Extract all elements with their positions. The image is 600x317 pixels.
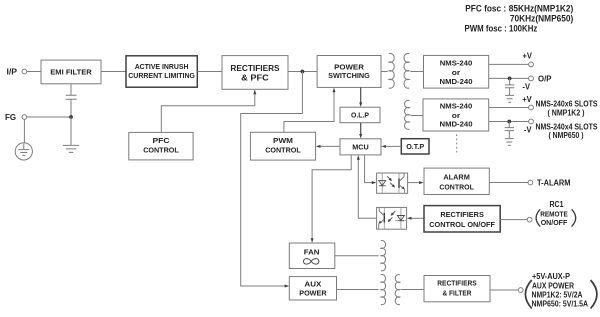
svg-text:-V: -V	[523, 82, 531, 91]
block POWER SWITCHING	[317, 56, 381, 88]
capacitor EMI Y-cap	[66, 84, 77, 117]
block NMS-240/NMD-240 slot 2	[423, 99, 489, 131]
block PWM CONTROL	[250, 132, 315, 160]
svg-text:NMS-240x6 SLOTS: NMS-240x6 SLOTS	[536, 99, 599, 108]
wire FAN to transformer T2	[335, 255, 379, 257]
earth protective ground symbol	[15, 143, 32, 160]
svg-text:NMS-240: NMS-240	[440, 58, 473, 67]
svg-text:70KHz(NMP650): 70KHz(NMP650)	[510, 14, 573, 24]
wire NMS slot2 -V output	[489, 121, 529, 123]
svg-text:AUX: AUX	[304, 279, 321, 288]
terminal +V output 1	[522, 51, 533, 66]
svg-text:NMP1K2: 5V/2A: NMP1K2: 5V/2A	[532, 291, 583, 300]
wire MCU to opto1	[365, 155, 374, 183]
svg-text:RECTIFIERS: RECTIFIERS	[230, 64, 279, 73]
transformer T1 secondary winding 1	[404, 53, 409, 88]
block RECTIFIERS CONTROL ON/OFF	[424, 206, 500, 232]
wire T2 secondary to RECTIFIERS & FILTER	[401, 289, 424, 291]
svg-text:-V: -V	[524, 126, 532, 135]
wire RECTIFIERS CONTROL to opto2	[410, 217, 424, 219]
transformer T2 fan winding	[381, 241, 386, 271]
junction FG node	[69, 115, 73, 119]
svg-text:ALARM: ALARM	[443, 173, 470, 182]
ground output 1	[505, 95, 514, 102]
wire PFC CONTROL to RECTIFIERS & PFC	[161, 91, 255, 133]
arrow into MCU	[359, 134, 362, 139]
svg-text:NMD-240: NMD-240	[440, 120, 473, 129]
block ACTIVE INRUSH CURRENT LIMITING	[126, 56, 197, 87]
svg-text:CONTROL: CONTROL	[265, 146, 301, 155]
block ALARM CONTROL	[424, 168, 489, 194]
ground output 2	[505, 139, 514, 146]
wire O.L.P to MCU	[360, 123, 362, 136]
wire ACTIVE INRUSH to RECTIFIERS & PFC	[197, 71, 222, 73]
svg-text:PFC: PFC	[153, 136, 171, 145]
wire DC bus down to AUX POWER	[241, 72, 303, 287]
wire opto1 to ALARM CONTROL	[408, 182, 421, 184]
wire O.T.P to MCU	[385, 145, 402, 147]
svg-text:+V: +V	[522, 51, 532, 60]
terminal +V output 2	[522, 95, 533, 110]
terminal -V output 2	[524, 119, 533, 135]
svg-text:85KHz(NMP1K2): 85KHz(NMP1K2)	[509, 4, 574, 14]
transformer T2 primary winding	[381, 274, 386, 304]
label NMS-240x6 SLOTS (NMP1K2)	[536, 99, 599, 117]
svg-text:or: or	[452, 111, 461, 120]
block O.T.P	[401, 139, 429, 154]
terminal O/P output 1	[523, 74, 552, 92]
wire FG to junction	[27, 116, 71, 118]
svg-text:CURRENT LIMITING: CURRENT LIMITING	[128, 71, 195, 80]
wire I/P to EMI FILTER	[27, 71, 41, 73]
transformer T1 primary winding	[389, 53, 394, 88]
block AUX POWER	[289, 277, 336, 300]
wire PWM CONTROL to POWER SWITCHING	[284, 89, 334, 133]
svg-text:NMD-240: NMD-240	[440, 77, 473, 86]
arrow into MCU bottom	[357, 155, 360, 160]
wire NMS slot1 -V output	[489, 77, 529, 79]
svg-text:CONTROL: CONTROL	[143, 146, 179, 155]
svg-text:CONTROL: CONTROL	[439, 183, 474, 192]
arrow into AUX POWER	[285, 285, 290, 288]
svg-text:FG: FG	[5, 113, 16, 122]
arrow into opto1 left	[372, 181, 377, 184]
wire NMS slot2 +V output	[489, 107, 529, 109]
arrow into opto2 right	[407, 217, 412, 220]
note PFC fosc / PWM fosc	[465, 4, 574, 34]
block PFC CONTROL	[129, 132, 193, 160]
terminal T-ALARM	[528, 179, 571, 188]
wire RECTIFIERS CONTROL to RC1 terminal	[500, 219, 527, 221]
junction main DC bus node	[301, 70, 305, 74]
svg-text:PFC fosc :: PFC fosc :	[465, 4, 506, 14]
svg-text:NMS-240: NMS-240	[440, 101, 473, 110]
svg-text:PWM fosc : 100KHz: PWM fosc : 100KHz	[465, 24, 538, 34]
wire RECTIFIERS & FILTER to aux terminal	[490, 289, 518, 291]
arrow into O.L.P	[359, 102, 362, 107]
svg-text:or: or	[452, 68, 461, 77]
block RECTIFIERS & PFC	[222, 56, 288, 90]
transformer T2 secondary winding	[395, 274, 400, 304]
svg-text:& FILTER: & FILTER	[443, 289, 472, 298]
capacitor output filter 2	[505, 122, 514, 139]
svg-text:ON/OFF: ON/OFF	[541, 218, 568, 227]
wire opto2 to MCU	[358, 158, 376, 218]
terminal FG	[5, 113, 27, 122]
dotted continuation more slots	[456, 134, 458, 152]
arrow into PWM CONTROL right	[316, 145, 321, 148]
block O.L.P	[340, 107, 380, 123]
svg-text:T-ALARM: T-ALARM	[537, 179, 571, 188]
svg-text:POWER: POWER	[299, 289, 327, 298]
wire ALARM CONTROL to T-ALARM terminal	[489, 182, 528, 184]
svg-text:( NMP1K2 ): ( NMP1K2 )	[548, 108, 585, 117]
wire junction down to chassis ground	[70, 117, 72, 145]
block FAN	[289, 243, 335, 269]
svg-text:AUX POWER: AUX POWER	[532, 282, 574, 291]
svg-text:& PFC: & PFC	[241, 74, 269, 83]
svg-text:SWITCHING: SWITCHING	[328, 71, 370, 80]
svg-text:CONTROL ON/OFF: CONTROL ON/OFF	[429, 220, 495, 229]
wire MCU to PWM CONTROL	[319, 145, 340, 147]
svg-text:+5V-AUX-P: +5V-AUX-P	[532, 272, 571, 281]
terminal I/P	[7, 67, 27, 76]
svg-text:( NMP650 ): ( NMP650 )	[549, 131, 584, 140]
wire RECTIFIERS & PFC to POWER SWITCHING	[288, 71, 317, 73]
junction output 1 node	[508, 77, 512, 81]
optocoupler U2 photocoupler	[377, 207, 407, 229]
wire NMS slot1 +V output	[489, 63, 529, 65]
block MCU	[340, 139, 381, 155]
svg-text:FAN: FAN	[304, 248, 320, 257]
svg-text:O/P: O/P	[538, 74, 552, 84]
terminal +5V-AUX-P	[518, 272, 597, 308]
ground chassis	[63, 145, 79, 152]
svg-text:PWM: PWM	[273, 136, 293, 145]
junction output 2 node	[507, 120, 511, 124]
svg-text:MCU: MCU	[352, 143, 369, 152]
optocoupler U1 photocoupler	[377, 173, 408, 193]
wire MCU to FAN	[312, 155, 351, 240]
svg-text:O.T.P: O.T.P	[406, 142, 424, 151]
capacitor output filter 1	[505, 78, 514, 95]
wire POWER SWITCHING to transformer T1 primary	[381, 71, 388, 73]
wire T1 secondary 1 to NMS-240 slot 1	[410, 71, 423, 73]
wire T1 secondary 2 to NMS-240 slot 2	[410, 115, 423, 117]
block EMI FILTER	[41, 60, 101, 84]
wire EMI FILTER to ACTIVE INRUSH	[101, 71, 126, 73]
terminal RC1 REMOTE ON/OFF	[527, 200, 576, 227]
svg-text:ACTIVE INRUSH: ACTIVE INRUSH	[135, 62, 189, 71]
arrow into FAN top	[311, 238, 314, 243]
svg-text:O.L.P: O.L.P	[351, 111, 369, 120]
wire FG down to earth	[23, 119, 25, 142]
svg-text:NMP650: 5V/1.5A: NMP650: 5V/1.5A	[532, 300, 589, 309]
block RECTIFIERS & FILTER	[424, 276, 490, 302]
block NMS-240/NMD-240 slot 1	[424, 55, 489, 88]
transformer T1 secondary winding 2	[405, 100, 410, 129]
svg-text:+V: +V	[522, 95, 532, 104]
svg-text:RECTIFIERS: RECTIFIERS	[440, 210, 484, 219]
svg-text:RECTIFIERS: RECTIFIERS	[437, 279, 477, 288]
arrow into RECTIFIERS & PFC	[253, 90, 256, 95]
arrow into ALARM CONTROL	[419, 181, 424, 184]
wire AUX POWER to transformer T2	[337, 289, 379, 291]
arrow into MCU right	[381, 145, 386, 148]
svg-text:EMI FILTER: EMI FILTER	[50, 67, 92, 76]
wire POWER SWITCHING to O.L.P	[360, 88, 362, 104]
svg-text:RC1: RC1	[550, 200, 564, 209]
arrow into POWER SWITCHING	[333, 88, 336, 93]
svg-text:I/P: I/P	[7, 67, 18, 76]
label NMS-240x4 SLOTS (NMP650)	[536, 123, 599, 140]
